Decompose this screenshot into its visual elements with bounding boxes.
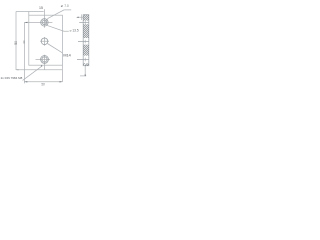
plate outline (front view) xyxy=(29,15,63,65)
svg-text:30: 30 xyxy=(22,40,26,44)
svg-text:⌀ 13.5: ⌀ 13.5 xyxy=(70,28,79,32)
right extension to bottom dim xyxy=(61,65,63,82)
hole1 horizontal centerline / dimension xyxy=(24,21,52,23)
hole1 inner circle xyxy=(42,20,47,25)
section view hatched xyxy=(83,15,89,66)
svg-text:50: 50 xyxy=(41,82,45,86)
hole3 inner circle xyxy=(42,57,47,62)
section hole center vertical dashes xyxy=(84,21,86,61)
below-section dim xyxy=(80,66,86,76)
section hole gaps xyxy=(84,21,89,64)
hole3 outer circle xyxy=(41,56,49,64)
hole2 centerlines xyxy=(40,37,49,46)
left extension line x24 xyxy=(23,22,25,83)
left extension line xyxy=(15,12,17,71)
svg-text:2x DIN 7984 M8: 2x DIN 7984 M8 xyxy=(1,76,23,80)
top dimension line xyxy=(16,11,44,13)
leader to dia 7.0 xyxy=(43,10,71,23)
hole1 outer circle xyxy=(41,19,48,26)
thickness dim marks top of section xyxy=(77,14,83,20)
hole1 vertical centerline xyxy=(43,9,45,28)
svg-text:M14: M14 xyxy=(63,53,70,57)
extension from plate top-left corner up to dim line xyxy=(28,12,30,16)
svg-text:50: 50 xyxy=(14,41,18,45)
svg-text:⌀: ⌀ xyxy=(61,4,63,8)
leader from part note xyxy=(23,66,43,81)
svg-text:15: 15 xyxy=(39,6,43,10)
bottom dimension line xyxy=(24,81,62,83)
hole3 centerlines xyxy=(36,55,51,70)
leader M14 xyxy=(47,44,63,54)
arrowheads xyxy=(16,17,86,83)
lower-left dimension line xyxy=(16,69,62,71)
leader to dia 13.5 xyxy=(45,22,69,31)
hole2 circle xyxy=(41,38,48,45)
svg-text:7.0: 7.0 xyxy=(64,4,69,8)
section hole centerlines xyxy=(77,22,89,59)
